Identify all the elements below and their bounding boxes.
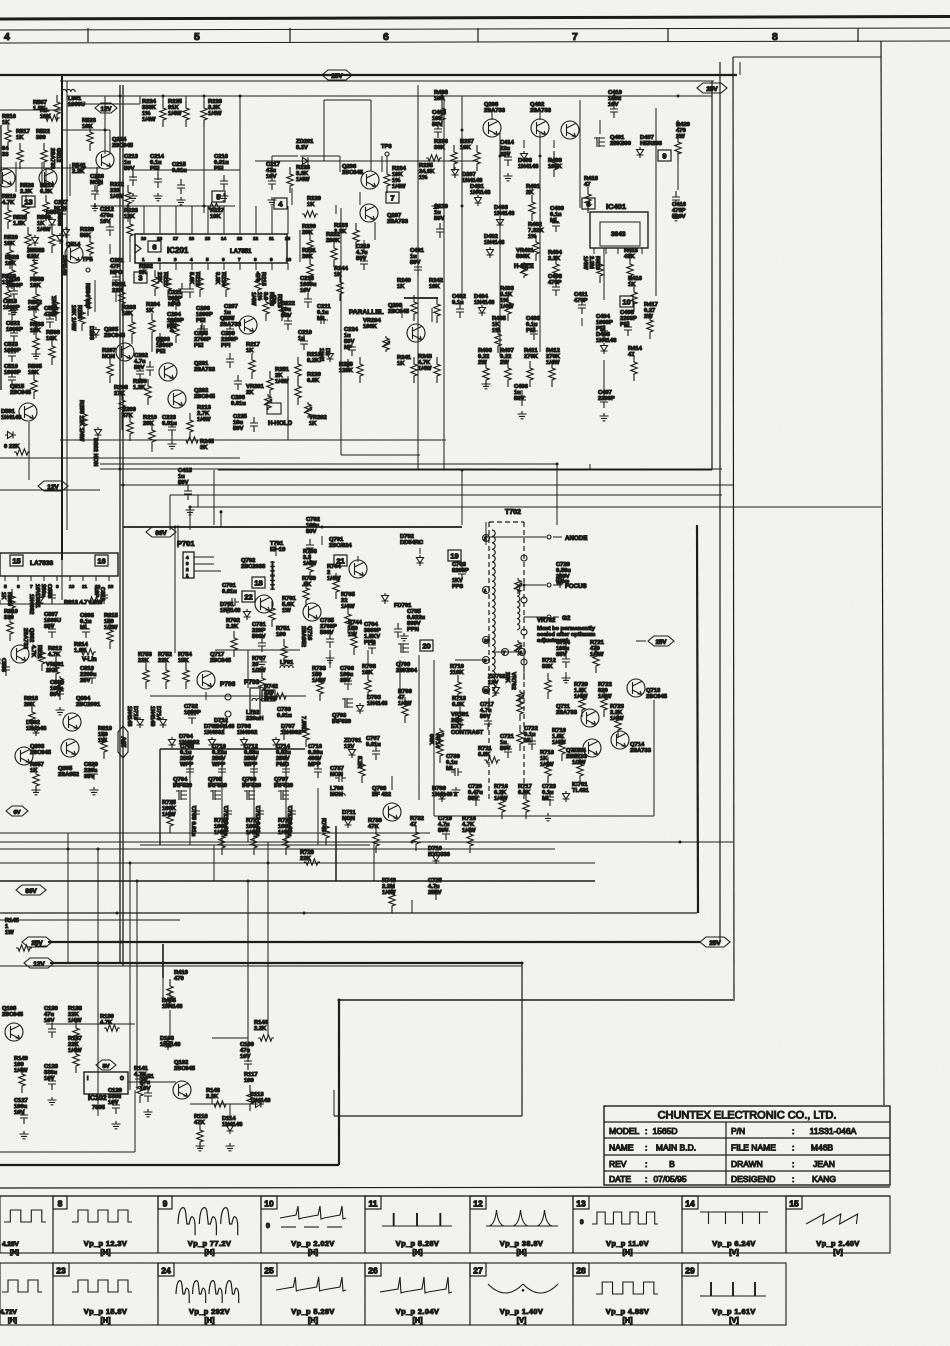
svg-text:3843: 3843: [611, 231, 626, 238]
potentiometer VR703: [504, 672, 524, 706]
waveform 10 trace: [266, 1206, 346, 1257]
capacitor C735: [320, 618, 337, 648]
resistor R812: [48, 646, 62, 681]
capacitor C411: [574, 292, 588, 314]
svg-text:C2080.01u: C2080.01u: [231, 395, 246, 407]
svg-text:R726100K1/4W: R726100K1/4W: [214, 818, 229, 836]
IC201 pin: [158, 257, 161, 270]
waveform 24 trace: [176, 1281, 239, 1325]
capacitor C725: [428, 878, 443, 900]
transistor Q203: [220, 316, 257, 334]
wire: [304, 841, 680, 843]
svg-text:B: B: [669, 1159, 675, 1169]
wire: [145, 660, 147, 668]
resistor R402: [528, 222, 544, 261]
deflection box top: [123, 526, 462, 528]
inductor L702: [246, 698, 265, 722]
wire psu rail6: [603, 248, 605, 300]
capacitor C717: [480, 702, 494, 730]
resistor R416: [628, 276, 643, 311]
ground: [20, 1131, 29, 1139]
wire: [45, 168, 47, 192]
waveform 8 trace: [72, 1210, 132, 1257]
resistor R713: [452, 696, 467, 733]
inductor L501: [62, 89, 85, 108]
svg-text:[H]: [H]: [10, 1249, 19, 1256]
resistor R405: [492, 316, 507, 353]
svg-text:24: 24: [161, 1266, 171, 1276]
IC201 label: [167, 246, 252, 255]
capacitor C731: [252, 622, 267, 652]
node 3: [134, 272, 147, 283]
svg-text:1KVPPS: 1KVPPS: [452, 578, 463, 590]
net 86V: [146, 527, 176, 537]
ground: [258, 659, 267, 667]
wire: [271, 156, 273, 174]
wire mid v2: [329, 650, 331, 668]
resistor R415: [624, 248, 639, 283]
resistor R529: [2, 274, 17, 309]
potentiometer VR201: [246, 384, 272, 410]
resistor R206: [78, 400, 87, 442]
net 25V: [322, 70, 352, 80]
ground: [562, 675, 571, 683]
LA7838 pin: [82, 576, 87, 590]
wire: [335, 205, 337, 214]
svg-text:[H]: [H]: [308, 1248, 318, 1257]
resistor R745: [320, 818, 329, 845]
capacitor C212: [100, 207, 114, 236]
capacitor C722: [524, 726, 538, 750]
wire: [15, 162, 17, 192]
wire: [35, 945, 48, 947]
junction: [129, 862, 132, 865]
waveform cell 10: [261, 1196, 365, 1253]
wire: [677, 120, 679, 132]
junction: [203, 205, 206, 208]
capacitor C715: [286, 805, 296, 837]
resistor R407: [500, 348, 514, 387]
diode D802: [26, 720, 47, 736]
svg-text:P701: P701: [177, 539, 195, 548]
line above waveform table: [0, 1187, 890, 1188]
svg-text:C521470P: C521470P: [44, 306, 59, 318]
capacitor C523: [4, 342, 21, 362]
LA7838 pin: [69, 576, 75, 590]
transistor Q804: [63, 696, 101, 731]
capacitor C130: [44, 1006, 58, 1038]
svg-text:IC401: IC401: [606, 202, 626, 211]
svg-text:[V]: [V]: [729, 1248, 739, 1257]
svg-text:6: 6: [222, 257, 225, 262]
svg-text:R710110K: R710110K: [450, 664, 464, 676]
svg-text:C709 0.01u: C709 0.01u: [190, 806, 196, 837]
junction: [247, 832, 250, 835]
IC201 pin top: [221, 206, 227, 241]
resistor R242: [429, 278, 443, 323]
wire: [321, 536, 323, 545]
svg-text:T702: T702: [505, 509, 521, 516]
ground: [432, 203, 441, 211]
svg-text:15: 15: [12, 556, 20, 565]
resistor R730: [368, 818, 382, 853]
capacitor C709: [190, 805, 200, 837]
resistor R819: [98, 726, 113, 759]
junction: [67, 848, 70, 851]
svg-text:13: 13: [576, 1199, 586, 1209]
IC201 pin top: [141, 206, 147, 241]
resistor R204: [146, 302, 161, 339]
wire: [247, 833, 249, 842]
capacitor C210: [298, 330, 312, 350]
junction: [411, 841, 414, 844]
svg-text:28: 28: [576, 1266, 586, 1276]
connector P703: [244, 679, 260, 686]
capacitor C207: [224, 304, 238, 338]
frame bottom h2: [339, 999, 733, 1001]
resistor R215: [254, 271, 266, 297]
resistor R231: [302, 248, 317, 283]
node 16: [95, 555, 108, 566]
transistor Q702: [241, 558, 273, 613]
svg-text:17: 17: [173, 236, 179, 241]
svg-text:7.5W2: 7.5W2: [300, 716, 306, 733]
resistor R234: [384, 166, 407, 193]
resistor R224: [142, 99, 166, 127]
resistor R813: [64, 597, 103, 606]
resistor R520: [4, 235, 18, 269]
wire vert-out left: [174, 527, 176, 653]
svg-text:10: 10: [286, 257, 292, 262]
potentiometer VR702: [514, 578, 522, 594]
svg-text:R725100K1/4W: R725100K1/4W: [162, 800, 177, 818]
bus v507: [189, 507, 191, 530]
junction: [162, 962, 165, 965]
capacitor C806: [34, 584, 56, 604]
svg-text:D202 NON: D202 NON: [92, 438, 98, 466]
node 10: [620, 296, 633, 307]
resistor R560: [37, 215, 55, 253]
sheet ruler top bar: [0, 17, 950, 20]
svg-text:[H]: [H]: [517, 1248, 527, 1257]
IC201 pin: [270, 257, 273, 270]
svg-text:R813 4.7 1/2W: R813 4.7 1/2W: [64, 600, 103, 606]
resistor R207: [102, 348, 116, 383]
net 25V: [648, 636, 674, 646]
transformer T701: [270, 541, 286, 576]
capacitor C226: [90, 174, 105, 200]
svg-text:0 22K: 0 22K: [4, 444, 20, 450]
svg-text:16: 16: [97, 556, 105, 565]
svg-text:IC102: IC102: [88, 1095, 107, 1102]
transistor Q713: [627, 679, 668, 700]
wire: [89, 256, 91, 262]
waveform cell 26: [365, 1263, 470, 1325]
resistor R245: [184, 437, 215, 451]
IC201 pin: [254, 257, 257, 270]
svg-text:29: 29: [685, 1266, 695, 1276]
resistor R238: [270, 294, 285, 321]
ground: [482, 381, 491, 389]
svg-text:4.28V: 4.28V: [2, 1241, 19, 1248]
svg-text:25V: 25V: [706, 86, 718, 93]
frame right v2: [733, 57, 734, 1001]
waveform 29 trace: [700, 1282, 766, 1325]
bus m1: [0, 457, 240, 459]
resistor R401: [526, 184, 541, 221]
svg-text:25V: 25V: [331, 73, 343, 80]
svg-text:D203: D203: [88, 326, 94, 341]
svg-text:13: 13: [108, 584, 114, 590]
zener diode ZD503: [27, 235, 45, 260]
resistor R212: [188, 271, 203, 297]
svg-text:[V]: [V]: [517, 1316, 527, 1325]
ground: [518, 411, 527, 419]
svg-text:D504: D504: [46, 210, 61, 216]
wire cap col3: [253, 755, 255, 845]
junction: [94, 205, 97, 208]
wire: [485, 522, 487, 545]
ground: [144, 1109, 153, 1117]
LA7838 pin: [17, 576, 20, 590]
IC201 pin: [286, 257, 292, 270]
label FOCUS: [553, 583, 587, 590]
svg-text::: :: [792, 1174, 794, 1184]
svg-text:4: 4: [4, 31, 10, 43]
wire lowmid rail2: [680, 841, 733, 843]
wire osc rail5: [299, 230, 301, 262]
resistor R145: [5, 918, 32, 951]
capacitor C708: [180, 744, 195, 778]
resistor R748: [300, 716, 309, 747]
svg-text:L706NON: L706NON: [330, 786, 344, 798]
wire: [419, 548, 421, 554]
resistor R742: [264, 684, 288, 702]
resistor R709: [398, 689, 413, 723]
IC102 label: [88, 1095, 107, 1111]
waveform 28 trace: [596, 1282, 658, 1325]
svg-text:P706: P706: [220, 681, 236, 688]
svg-text:5: 5: [194, 31, 200, 43]
diode D206: [57, 233, 68, 276]
capacitor C409: [550, 206, 565, 232]
diode D405: [162, 997, 183, 1010]
resistor R703: [303, 549, 318, 579]
resistor R233: [334, 223, 359, 249]
svg-text:R409100K: R409100K: [548, 158, 563, 170]
wire: [587, 204, 589, 212]
bus v8: [247, 881, 249, 1035]
node 22: [242, 591, 255, 602]
svg-text:R7116.8K: R7116.8K: [478, 746, 492, 758]
junction: [613, 95, 616, 98]
svg-text:25V: 25V: [709, 940, 721, 947]
resistor R235: [419, 155, 442, 181]
flyback pin: [483, 687, 490, 694]
diode D402: [484, 234, 505, 258]
wire: [185, 660, 187, 668]
connector P703: [250, 688, 260, 714]
resistor R702: [226, 618, 240, 657]
svg-text:10: 10: [484, 638, 490, 643]
transistor Q207: [360, 204, 409, 225]
svg-text:12V: 12V: [33, 961, 45, 968]
wire: [523, 140, 525, 148]
resistor R406: [478, 348, 493, 387]
junction: [461, 129, 464, 132]
frame bottom heavy: [0, 1164, 339, 1166]
svg-text:[H]: [H]: [205, 1316, 215, 1325]
diode D712: [214, 718, 235, 730]
resistor R209: [122, 407, 137, 441]
wire: [603, 360, 605, 392]
resistor R516: [2, 114, 17, 149]
net 6V: [6, 806, 28, 816]
waveform 23 trace: [72, 1280, 132, 1325]
svg-text:13: 13: [237, 236, 243, 241]
wire lowmid rail: [213, 845, 215, 881]
transistor Q803: [15, 744, 52, 765]
IC LA7838 box: [0, 553, 118, 576]
junction: [338, 999, 341, 1002]
svg-text:R2501.2K: R2501.2K: [133, 379, 147, 391]
wire: [523, 585, 525, 590]
wire: [595, 644, 597, 652]
fuse FOCUS: [547, 583, 551, 587]
transistor Q205: [104, 327, 134, 361]
wire r146 rail: [212, 1037, 248, 1039]
junction: [677, 95, 680, 98]
IC201 pin top: [269, 206, 274, 241]
wire: [253, 756, 255, 762]
svg-text:[H]: [H]: [308, 1316, 318, 1325]
wire: [300, 155, 340, 157]
transformer T702: [505, 509, 521, 516]
wire leftcol v: [28, 422, 30, 480]
capacitor C215: [172, 162, 187, 194]
wire: [565, 672, 567, 680]
svg-text:1: 1: [142, 257, 145, 262]
wire: [359, 192, 361, 205]
capacitor C416: [672, 191, 687, 220]
net 25V: [697, 83, 727, 93]
wire: [441, 96, 443, 118]
resistor R809: [0, 589, 15, 615]
bus v3: [119, 85, 121, 963]
wire q102 drop1: [229, 1104, 231, 1120]
transistor Q403: [561, 121, 579, 139]
LA7838 pin: [30, 576, 33, 590]
transistor Q401: [594, 135, 631, 147]
transistor G2: [547, 615, 551, 619]
svg-text:IC701TL431: IC701TL431: [572, 782, 590, 794]
wire ic102 rail1: [46, 1023, 135, 1025]
resistor R220: [295, 372, 321, 405]
wire mid v1: [247, 650, 249, 688]
waveform cell 28: [573, 1263, 682, 1325]
psu box left v: [417, 85, 419, 470]
resistor R753: [138, 652, 153, 689]
wire cap col2: [221, 755, 223, 845]
capacitor C406: [514, 384, 529, 406]
svg-text:C7100.22u250VWPP: C7100.22u250VWPP: [212, 744, 227, 768]
wire tp3 stub: [386, 156, 388, 172]
waveform 14 trace: [700, 1212, 768, 1257]
svg-text:25: 25: [264, 1266, 274, 1276]
IC201 pin top: [237, 206, 243, 241]
svg-text:19: 19: [141, 236, 147, 241]
resistor R724: [572, 748, 587, 783]
resistor R714: [428, 734, 443, 763]
net 86V: [16, 885, 46, 895]
capacitor C712: [244, 744, 259, 778]
ground: [226, 1143, 235, 1151]
resistor R250: [133, 379, 151, 405]
ground: [224, 605, 233, 613]
resistor R726: [214, 818, 229, 855]
wire: [221, 756, 223, 762]
resistor R232: [326, 232, 341, 267]
wire parallel box v: [340, 208, 342, 455]
resistor R559: [30, 277, 45, 313]
resistor R214: [214, 271, 229, 297]
flyback dashed box: [489, 522, 524, 800]
bus v7: [162, 944, 164, 978]
IC401 pin: [641, 248, 643, 254]
title block frame: [604, 1106, 890, 1185]
bus mid h: [0, 919, 180, 921]
resistor R815: [104, 613, 119, 649]
resistor R117: [244, 1072, 258, 1111]
resistor R403: [500, 286, 515, 321]
wire psu rail3: [539, 132, 541, 352]
ground: [91, 203, 100, 211]
ruler tick: [87, 28, 89, 42]
resistor R720: [574, 682, 588, 717]
bus h3: [0, 848, 555, 850]
diode D203: [88, 326, 100, 341]
wire: [171, 436, 173, 444]
waveform cell 14: [682, 1196, 786, 1253]
resistor R201: [112, 282, 127, 311]
wire ic102 rail2: [128, 1081, 176, 1083]
waveform 22 trace: [0, 1280, 42, 1324]
IC201 pin: [190, 257, 193, 270]
waveform cell 12: [470, 1196, 573, 1253]
svg-text:14: 14: [221, 236, 227, 241]
svg-text:R7022.2K: R7022.2K: [226, 618, 240, 630]
resistor R565: [28, 364, 43, 399]
wire flyback g2: [523, 648, 525, 680]
bus 963b: [0, 965, 522, 967]
resistor R512: [4, 444, 30, 455]
junction: [539, 155, 542, 158]
waveform 15 trace: [806, 1214, 860, 1257]
svg-text:C7070.01u: C7070.01u: [366, 736, 381, 748]
wire: [127, 206, 129, 222]
svg-text:R2206.8K: R2206.8K: [307, 372, 321, 384]
contrast box: [434, 660, 654, 816]
resistor R572: [40, 108, 60, 121]
potentiometer VR204: [363, 318, 390, 352]
wire: [556, 495, 558, 507]
wire d711 drop: [335, 826, 337, 881]
capacitor C807: [44, 612, 61, 638]
svg-text:R214: R214: [168, 318, 174, 333]
ground: [10, 307, 19, 315]
IC201 pin top: [189, 206, 195, 241]
flyback primary winding: [492, 530, 495, 696]
